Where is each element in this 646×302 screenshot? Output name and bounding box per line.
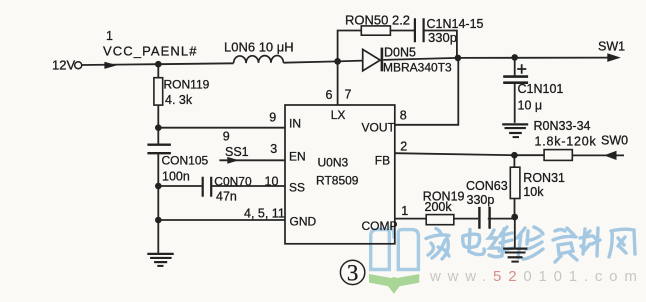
svg-text:3: 3 [347,261,359,286]
svg-text:SW1: SW1 [598,40,625,54]
svg-text:RON50 2.2: RON50 2.2 [345,13,410,28]
resistor RON19 [426,215,454,225]
svg-text:VCC_PAENL#: VCC_PAENL# [103,44,198,59]
svg-text:FB: FB [375,154,390,168]
SW0 arrow [604,151,617,160]
wire diode cathode to SW1 [383,58,611,60]
wire GND pins [158,219,285,221]
svg-text:GND: GND [290,215,317,229]
svg-text:7: 7 [345,88,352,102]
circled 3 page marker [340,260,364,284]
char 网 [609,231,612,257]
svg-text:LX: LX [331,108,346,122]
svg-text:4. 3k: 4. 3k [165,93,193,107]
svg-text:CON63: CON63 [466,179,508,193]
ground C1N101 [502,124,528,137]
svg-text:SS: SS [289,181,305,195]
wire RON31 stubs [513,155,515,217]
left rail down [157,64,159,253]
svg-text:D0N5: D0N5 [384,46,416,60]
svg-text:MBRA340T3: MBRA340T3 [383,61,452,75]
wire EN pin3 [219,159,285,161]
top rail RON50/C1N14-15 branch [338,31,457,62]
svg-text:IN: IN [289,117,301,131]
svg-text:SS1: SS1 [225,145,249,159]
resistor RON31 [510,167,520,198]
watermark chinese text (hand-drawn strokes) [426,227,635,262]
svg-text:L0N6 10 μH: L0N6 10 μH [224,40,294,55]
junction dots [155,61,162,68]
char 电 [463,234,480,247]
wire IN pin9 [158,127,285,129]
svg-text:RON119: RON119 [164,78,210,92]
svg-text:VOUT: VOUT [362,121,396,135]
wire inductor to diode anode [283,61,362,63]
svg-text:330p: 330p [467,193,495,207]
char 家 [436,229,441,234]
char 资 [555,230,565,232]
svg-text:10k: 10k [523,185,544,199]
wire 12V to inductor [82,63,234,65]
svg-text:4, 5, 11: 4, 5, 11 [244,207,285,221]
capacitor CON63 [479,207,489,229]
svg-text:www.520101.com: www.520101.com [429,268,644,285]
capacitor CON105 [147,145,171,154]
resistor RON50 [361,26,390,35]
svg-text:COMP: COMP [362,219,398,233]
svg-text:R0N33-34: R0N33-34 [534,119,591,133]
main schematic [82,31,624,253]
svg-text:U0N3: U0N3 [318,156,349,170]
svg-text:C0N70: C0N70 [214,175,252,189]
wire COMP junction to ground [514,217,516,248]
svg-text:CON105: CON105 [162,154,209,168]
diode D0N5 [363,49,381,71]
ground COMP [503,249,527,262]
capacitor C1N14-15 [415,18,424,42]
wire VOUT pin8 [395,58,458,125]
svg-text:RT8509: RT8509 [316,174,359,188]
svg-text:EN: EN [289,150,306,164]
svg-text:330p: 330p [428,30,457,45]
char 维 [489,230,499,248]
svg-text:10 μ: 10 μ [518,99,543,113]
svg-text:10: 10 [265,175,279,189]
wire COMP pin1 [395,218,515,220]
wire SS pin10 [158,185,285,187]
svg-text:2: 2 [400,140,407,154]
capacitor C1N101 polarized [503,77,528,83]
wire FB pin2 to SW0 [395,153,624,155]
svg-text:47n: 47n [216,190,237,204]
resistor 1.8k-120k [544,150,572,161]
svg-text:SW0: SW0 [601,134,628,148]
wire LX pins 6,7 [337,61,339,105]
capacitor CON70 [203,177,212,197]
resistor RON119 [154,78,163,105]
12V input port circle [75,62,82,69]
svg-text:1: 1 [106,29,113,43]
svg-text:C1N101: C1N101 [518,82,564,96]
svg-text:100n: 100n [162,170,190,184]
op-amp U0N3 IC box [285,105,395,244]
watermark book icon [369,226,419,293]
svg-text:1: 1 [401,204,408,218]
inductor L0N6 [234,56,284,64]
SS1 arrow [227,157,239,164]
SW1 arrow [607,53,621,62]
svg-text:8: 8 [400,109,407,123]
12V arrow [104,62,117,69]
svg-text:C1N14-15: C1N14-15 [427,17,484,31]
wire C1N101 [514,58,516,123]
svg-text:6: 6 [326,88,333,102]
svg-text:1.8k-120k: 1.8k-120k [535,135,597,149]
svg-text:9: 9 [223,130,230,144]
char 料 [583,229,585,254]
svg-text:12V: 12V [52,58,75,73]
ground left [147,254,173,266]
svg-text:9: 9 [269,111,276,125]
C1N101 plus sign [517,64,526,74]
char 修 [518,234,521,258]
svg-text:RON31: RON31 [523,171,565,185]
svg-text:3: 3 [270,142,277,156]
svg-text:200k: 200k [425,200,453,214]
